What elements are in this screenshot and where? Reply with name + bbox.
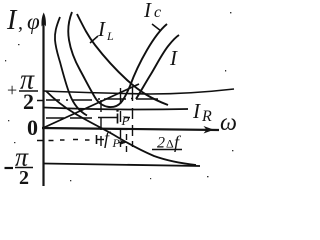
- svg-text:I: I: [6, 5, 18, 36]
- svg-text:,: ,: [18, 12, 23, 34]
- svg-text:2: 2: [157, 135, 165, 152]
- svg-text:I: I: [192, 99, 201, 123]
- svg-text:ω: ω: [220, 110, 237, 136]
- svg-text:I: I: [143, 0, 152, 22]
- svg-text:P: P: [121, 113, 130, 128]
- svg-text:L: L: [106, 29, 114, 43]
- svg-text:I: I: [97, 17, 106, 41]
- svg-text:+: +: [7, 80, 17, 100]
- svg-text:0: 0: [27, 115, 38, 140]
- svg-text:c: c: [154, 4, 161, 21]
- svg-text:R: R: [201, 108, 212, 125]
- svg-text:2: 2: [19, 167, 29, 189]
- svg-text:φ: φ: [27, 9, 40, 34]
- svg-text:2: 2: [23, 89, 34, 114]
- svg-text:P: P: [112, 136, 121, 150]
- svg-text:I: I: [169, 46, 178, 70]
- svg-text:Δ: Δ: [166, 137, 174, 151]
